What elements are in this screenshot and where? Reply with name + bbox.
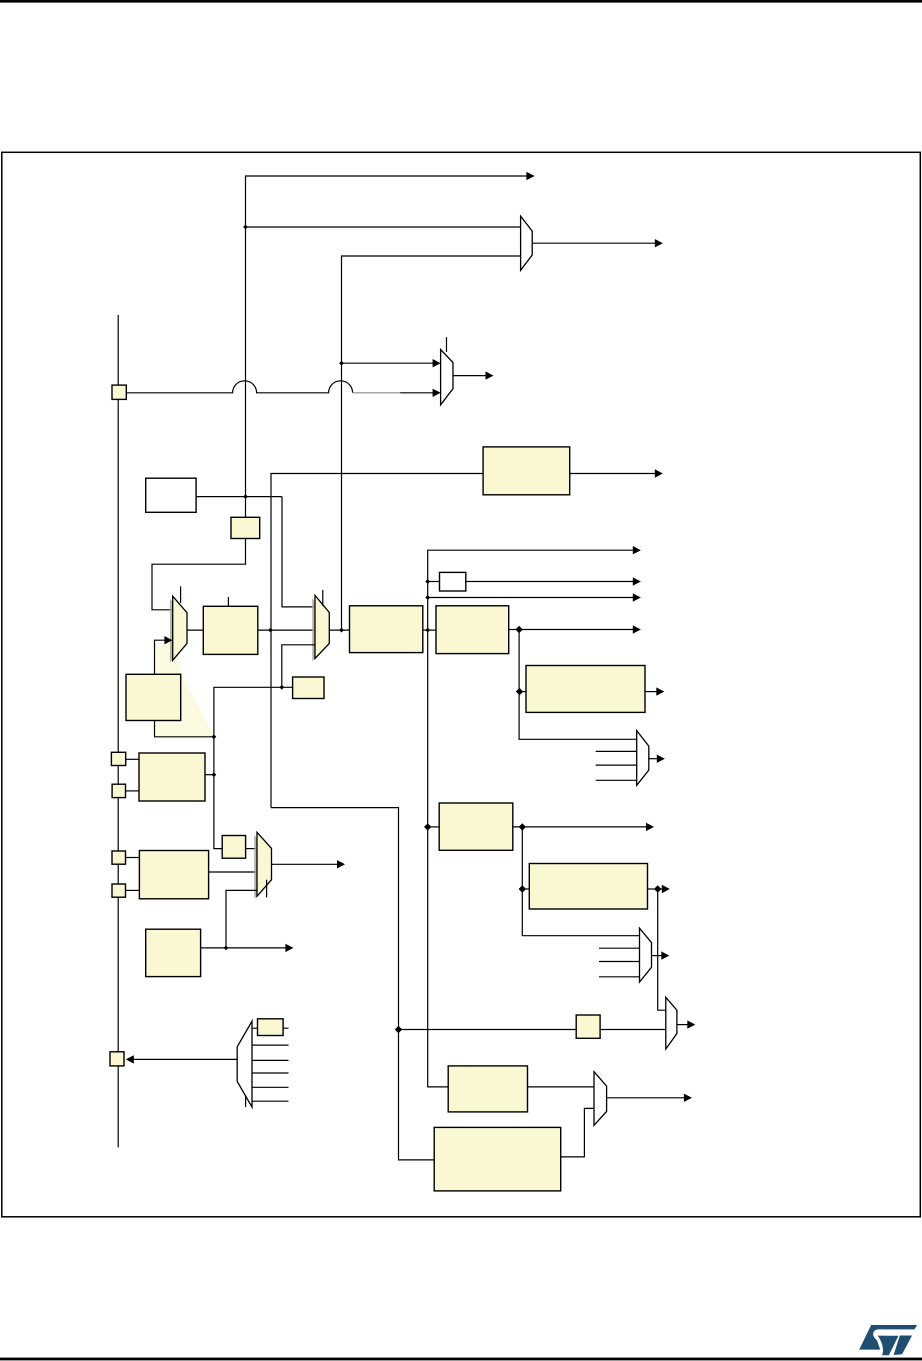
grey wire segment [353, 392, 401, 394]
mux M7 input stub [599, 976, 640, 978]
block B18 output wire [561, 1108, 594, 1157]
mux M2 [441, 350, 453, 405]
arrowhead M1 out [655, 239, 663, 247]
mux M9 left-pointing [237, 1021, 252, 1107]
block B13 output wire [246, 848, 257, 850]
wire mux M2 upper input [342, 362, 434, 364]
mux M4 [315, 595, 329, 658]
pin P4 [112, 851, 126, 864]
mux M7 input stub [599, 961, 640, 963]
arrowhead bus top [633, 546, 641, 554]
ST logo [859, 1325, 917, 1355]
block B12 output wire [209, 871, 257, 873]
block B1 [483, 447, 570, 495]
block B17 output wire [528, 1086, 595, 1088]
arrowhead [633, 593, 641, 601]
arrowhead M6 out [337, 860, 345, 868]
mux M7 [640, 928, 652, 982]
net to bottom blocks [271, 808, 434, 1160]
wire into block B6 [520, 691, 527, 693]
wire from B2 to mux M3 [152, 539, 246, 610]
pin P3 wire [126, 790, 140, 792]
mux M1 [521, 216, 533, 270]
mux M10 output wire [607, 1097, 684, 1099]
wire to mux M4 upper input [282, 497, 315, 607]
mux M3 select stub [180, 586, 182, 603]
junction diamond [395, 1026, 402, 1033]
block B15 small [576, 1015, 600, 1038]
wire into block B11 [522, 888, 529, 890]
net from B5 down to B6 and mux M5 [519, 630, 637, 740]
block B3 [203, 606, 257, 654]
mux M5 output wire [649, 758, 658, 760]
junction dot [425, 628, 430, 633]
pin P1 [112, 385, 126, 399]
junction dot [268, 628, 273, 633]
mux M6 select stub [266, 880, 268, 898]
junction dot [243, 494, 248, 499]
mux M9 input stub [252, 1072, 289, 1074]
block B14 output wire [201, 947, 286, 949]
junction diamond [654, 885, 661, 892]
arrowhead M2 lower [433, 389, 441, 397]
block B15 output wire [600, 1029, 666, 1031]
junction dot [212, 772, 217, 777]
arrowhead M9 out left [126, 1055, 134, 1063]
wire W2 to mux M1 [246, 226, 521, 228]
wire W9 from white block [196, 496, 282, 498]
distribution bus vertical [428, 550, 634, 1087]
mux M9 select stub [245, 1095, 247, 1107]
arrowhead M7 out [661, 951, 669, 959]
block B5 output wire [509, 629, 634, 631]
block B3 output wire [258, 629, 315, 631]
mux M5 input stub [596, 779, 637, 781]
mux M9 output wire [133, 1058, 237, 1060]
mux M5 [637, 731, 649, 786]
mux M7 output wire [652, 955, 663, 957]
pin P2 [111, 752, 125, 765]
arrowhead B11 out [662, 885, 670, 893]
mux M9 input stub [252, 1100, 289, 1102]
wire into block B10 [428, 826, 440, 828]
left pin bus wire [117, 315, 119, 1147]
block B6 [526, 666, 645, 713]
junction dot [224, 946, 229, 951]
wire W1 top [246, 176, 535, 517]
block B13 small [222, 836, 245, 859]
arrowhead B10 out [646, 823, 654, 831]
block B14 LSI [146, 929, 201, 976]
arrowhead M3 lower input [164, 636, 172, 644]
arrowhead B14 out [285, 944, 293, 952]
block B10 [439, 803, 513, 850]
page top rule [0, 0, 922, 3]
block B18 big [434, 1127, 561, 1191]
junction diamond bus tap [424, 823, 431, 830]
mux M10 [594, 1072, 607, 1126]
block B7 HSI [126, 674, 181, 720]
block B11 [529, 864, 647, 910]
mux M6 shadow [254, 835, 268, 899]
block B12 oscillator [139, 851, 208, 899]
mux M1 output wire [532, 242, 655, 244]
block B16 small [258, 1019, 284, 1036]
mux M2 select stub [446, 337, 448, 352]
mux M6 lower input wire [226, 890, 257, 948]
net from B11 down to mux M8 [658, 889, 666, 1010]
arrowhead M10 out [684, 1094, 692, 1102]
arrowhead M5 out [657, 755, 665, 763]
block B4 output wire [423, 629, 436, 631]
block B8 output wire [205, 774, 214, 776]
arrowhead M2 upper [433, 359, 441, 367]
arrowhead M8 out [687, 1020, 695, 1028]
junction dot [425, 595, 430, 600]
wire CCO tap [399, 1029, 577, 1031]
pin P6 [110, 1052, 124, 1066]
mux M4 select stub [322, 590, 324, 606]
block B5 [436, 606, 509, 654]
mux M6 output wire [272, 863, 339, 865]
arrowhead B1 out [655, 469, 663, 477]
mux M7 input stub [599, 947, 640, 949]
block B11 output wire [648, 888, 664, 890]
block B8 oscillator [139, 753, 205, 801]
wire W3 vertical net [342, 256, 521, 630]
wire third tap [428, 597, 634, 599]
arrowhead B5 out [633, 625, 641, 633]
net down to B11 and mux M7 [522, 827, 639, 936]
junction dot [212, 734, 217, 739]
mux M3 shadow [170, 599, 184, 663]
pin P5 wire [126, 889, 140, 891]
junction dot [279, 685, 284, 690]
wire into mux M2 lower input [400, 392, 433, 394]
junction diamond [516, 688, 523, 695]
wire into B1 [271, 474, 483, 808]
junction diamond [519, 823, 526, 830]
mux M3 output wire [187, 629, 203, 631]
mux M2 output wire [453, 375, 486, 377]
block B1 output wire [570, 473, 655, 475]
page bottom rule [0, 1358, 922, 1361]
mux M4 lower input wire [282, 645, 315, 688]
junction dot [425, 579, 430, 584]
mux M9 input stub [252, 1044, 289, 1046]
mux M3 lower input wire [155, 640, 214, 737]
junction diamond [519, 885, 526, 892]
mux M5 input stub [596, 764, 637, 766]
junction dot [339, 361, 344, 366]
small block B2 [231, 517, 260, 538]
pin P5 [112, 884, 126, 897]
junction diamond [515, 626, 522, 633]
mux M9 input stub [252, 1059, 289, 1061]
shadow beam from mux M3 [154, 643, 214, 737]
white block W2 output wire [466, 581, 634, 583]
block B6 output wire [645, 691, 657, 693]
pin P2 wire [126, 758, 139, 760]
mux M6 [257, 832, 272, 896]
mux M5 input stub [596, 750, 637, 752]
pin P4 wire [126, 857, 140, 859]
mux M4 output wire [329, 629, 349, 631]
junction dot [243, 225, 248, 230]
wire to white block W2 [428, 581, 440, 583]
mux M9 input stub with block B16 [252, 1027, 289, 1029]
mux M3 [173, 596, 187, 660]
junction dot [339, 628, 344, 633]
mux M9 input stub [252, 1086, 289, 1088]
net node wire [214, 687, 293, 848]
block B3 select stub [227, 597, 229, 606]
white block W1 [146, 478, 196, 512]
block B9 small [293, 677, 324, 699]
arrowhead W1 [526, 172, 534, 180]
figure frame [2, 152, 921, 1217]
pin P1 wire with hops [127, 381, 353, 393]
block B17 [448, 1066, 527, 1112]
mux M4 shadow [312, 598, 326, 661]
pin P3 [112, 784, 125, 797]
arrowhead [633, 577, 641, 585]
block B10 output wire [513, 826, 647, 828]
arrowhead B6 out [656, 687, 664, 695]
white block W2 [440, 572, 466, 591]
mux M8 [666, 997, 677, 1049]
arrowhead M2 out [486, 371, 494, 379]
mux M8 output wire [677, 1024, 688, 1026]
block B4 [350, 606, 423, 653]
